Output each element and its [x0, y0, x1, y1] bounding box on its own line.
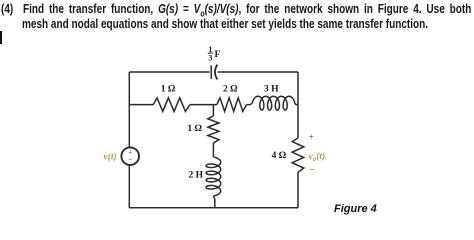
svg-text:+: +: [128, 149, 132, 156]
wire: L2 to bottom rail: [213, 196, 214, 208]
svg-text:−: −: [128, 157, 132, 164]
svg-text:2 H: 2 H: [189, 170, 204, 180]
wire: middle rail from R2 to L3: [247, 103, 253, 104]
svg-text:−: −: [310, 165, 315, 175]
wire: right vertical top segment: [297, 72, 299, 138]
capacitor C 1/3 F: flat plate: [210, 65, 212, 78]
left edge scan artifact: [0, 31, 2, 44]
wire: middle rail from R1 to node A: [190, 104, 217, 106]
wire: bottom rail: [129, 207, 298, 209]
svg-text:1 Ω: 1 Ω: [187, 124, 202, 134]
svg-text:2 Ω: 2 Ω: [223, 85, 238, 95]
svg-text:3 H: 3 H: [264, 85, 279, 95]
wire: R1v to L2: [212, 143, 214, 157]
problem statement text: [1, 1, 471, 19]
voltage source v(t): [121, 147, 139, 165]
wire: top rail right segment: [218, 71, 298, 73]
svg-text:+: +: [309, 132, 314, 142]
svg-text:4 Ω: 4 Ω: [272, 151, 287, 161]
svg-text:vo(t): vo(t): [309, 151, 326, 163]
resistor R 1 ohm vertical: [208, 116, 219, 143]
wire: right vertical bottom segment: [297, 172, 299, 208]
capacitor C 1/3 F: curved plate: [215, 65, 217, 80]
inductor L 2 H vertical: [206, 157, 221, 196]
wire: middle rail from left wire to R1: [129, 104, 153, 106]
wire: node A down to R1v: [212, 105, 214, 116]
wire: top rail left segment: [129, 71, 209, 73]
label 1/3 F: fraction bar: [208, 52, 213, 54]
wire: left vertical bottom segment (source to bottom-left corner): [128, 165, 130, 208]
wire: L3 to right vertical: [295, 103, 298, 104]
svg-text:1 Ω: 1 Ω: [161, 85, 176, 95]
wire: left vertical top segment (top-left corner to source): [128, 72, 130, 147]
svg-text:F: F: [215, 50, 221, 60]
resistor R 1 ohm horizontal: [153, 98, 190, 112]
svg-text:v(t): v(t): [104, 151, 117, 162]
inductor L 3 H horizontal: [252, 96, 295, 110]
resistor R 2 ohm horizontal: [217, 98, 247, 112]
resistor R 4 ohm vertical: [292, 138, 304, 172]
caption Figure 4: [334, 203, 377, 215]
svg-text:3: 3: [208, 54, 212, 63]
